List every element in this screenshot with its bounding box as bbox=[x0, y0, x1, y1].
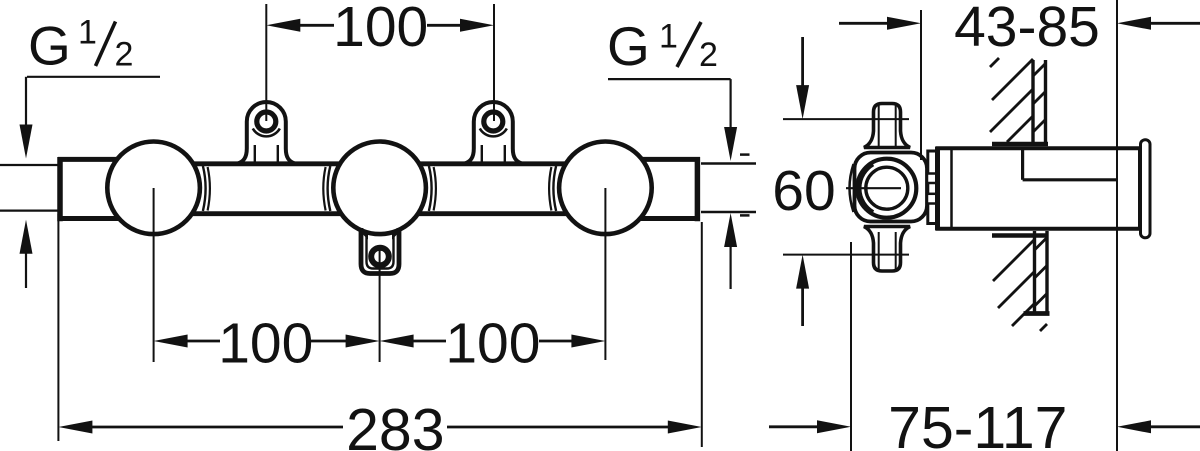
svg-text:G: G bbox=[607, 15, 650, 77]
wire left thread stub lines bbox=[0, 165, 60, 211]
svg-text:100: 100 bbox=[218, 312, 313, 376]
dimension 60 bbox=[772, 37, 909, 326]
mounting lug bottom (under circle 2) bbox=[360, 228, 401, 274]
mounting lug 1 (top) bbox=[238, 102, 295, 164]
cartridge circle inner bbox=[866, 167, 908, 209]
wall upper section bbox=[990, 58, 1048, 146]
dimension 283 bbox=[58, 214, 701, 451]
pipe left end cap bbox=[58, 157, 132, 221]
dimension 75-117 bbox=[769, 242, 1200, 451]
wall lower section bbox=[992, 231, 1050, 331]
wire right thread stub lines bbox=[701, 164, 756, 213]
svg-text:43-85: 43-85 bbox=[954, 0, 1100, 59]
valve circle 3 bbox=[559, 142, 652, 235]
pipe right end cap bbox=[628, 157, 700, 221]
spigot cylinder bbox=[936, 147, 1142, 231]
node centerline circle 2 bbox=[379, 246, 381, 362]
boss left of circle 3 bbox=[549, 166, 556, 211]
node centerline circle 3 bbox=[604, 188, 606, 360]
cartridge circle outer bbox=[857, 159, 916, 218]
svg-text:2: 2 bbox=[115, 36, 134, 74]
bottom lug side view bbox=[864, 227, 910, 272]
valve circle 1 bbox=[107, 142, 200, 235]
wire side stub lines bbox=[740, 155, 750, 216]
top lug side view bbox=[864, 104, 910, 148]
dimension 43-85 bbox=[839, 0, 1200, 451]
leader G 1/2 left bbox=[20, 77, 161, 288]
node centerline circle 1 bbox=[153, 188, 155, 362]
svg-text:2: 2 bbox=[699, 36, 718, 74]
svg-text:1: 1 bbox=[78, 14, 97, 52]
valve body side bbox=[855, 153, 928, 222]
svg-text:1: 1 bbox=[659, 18, 678, 56]
dimension 100 top bbox=[266, 0, 494, 121]
label G 1/2 middle bbox=[607, 15, 718, 77]
svg-text:G: G bbox=[28, 15, 71, 77]
boss left of circle 2 bbox=[323, 166, 330, 211]
leader G 1/2 middle bbox=[608, 79, 737, 289]
valve side chamfer arc bbox=[850, 164, 854, 212]
svg-text:100: 100 bbox=[333, 0, 428, 59]
dimension 100 bottom right bbox=[413, 311, 606, 375]
svg-text:283: 283 bbox=[346, 397, 444, 451]
svg-text:100: 100 bbox=[445, 311, 540, 375]
dimension 100 bottom left bbox=[154, 312, 414, 376]
svg-text:60: 60 bbox=[772, 159, 835, 223]
spigot end rim bbox=[1140, 140, 1151, 238]
boss right of circle 1 bbox=[203, 166, 210, 211]
mounting lug 2 (top) bbox=[465, 102, 522, 164]
svg-text:75-117: 75-117 bbox=[888, 395, 1067, 451]
cartridge center dash bbox=[846, 187, 901, 189]
spigot depth step line bbox=[1023, 150, 1117, 180]
pipe mid body bbox=[150, 164, 612, 214]
label G 1/2 left bbox=[28, 14, 133, 77]
flange band bbox=[927, 151, 937, 224]
cartridge bevel arc bbox=[860, 165, 873, 212]
boss right of circle 2 bbox=[429, 166, 436, 211]
valve circle 2 bbox=[333, 142, 426, 235]
